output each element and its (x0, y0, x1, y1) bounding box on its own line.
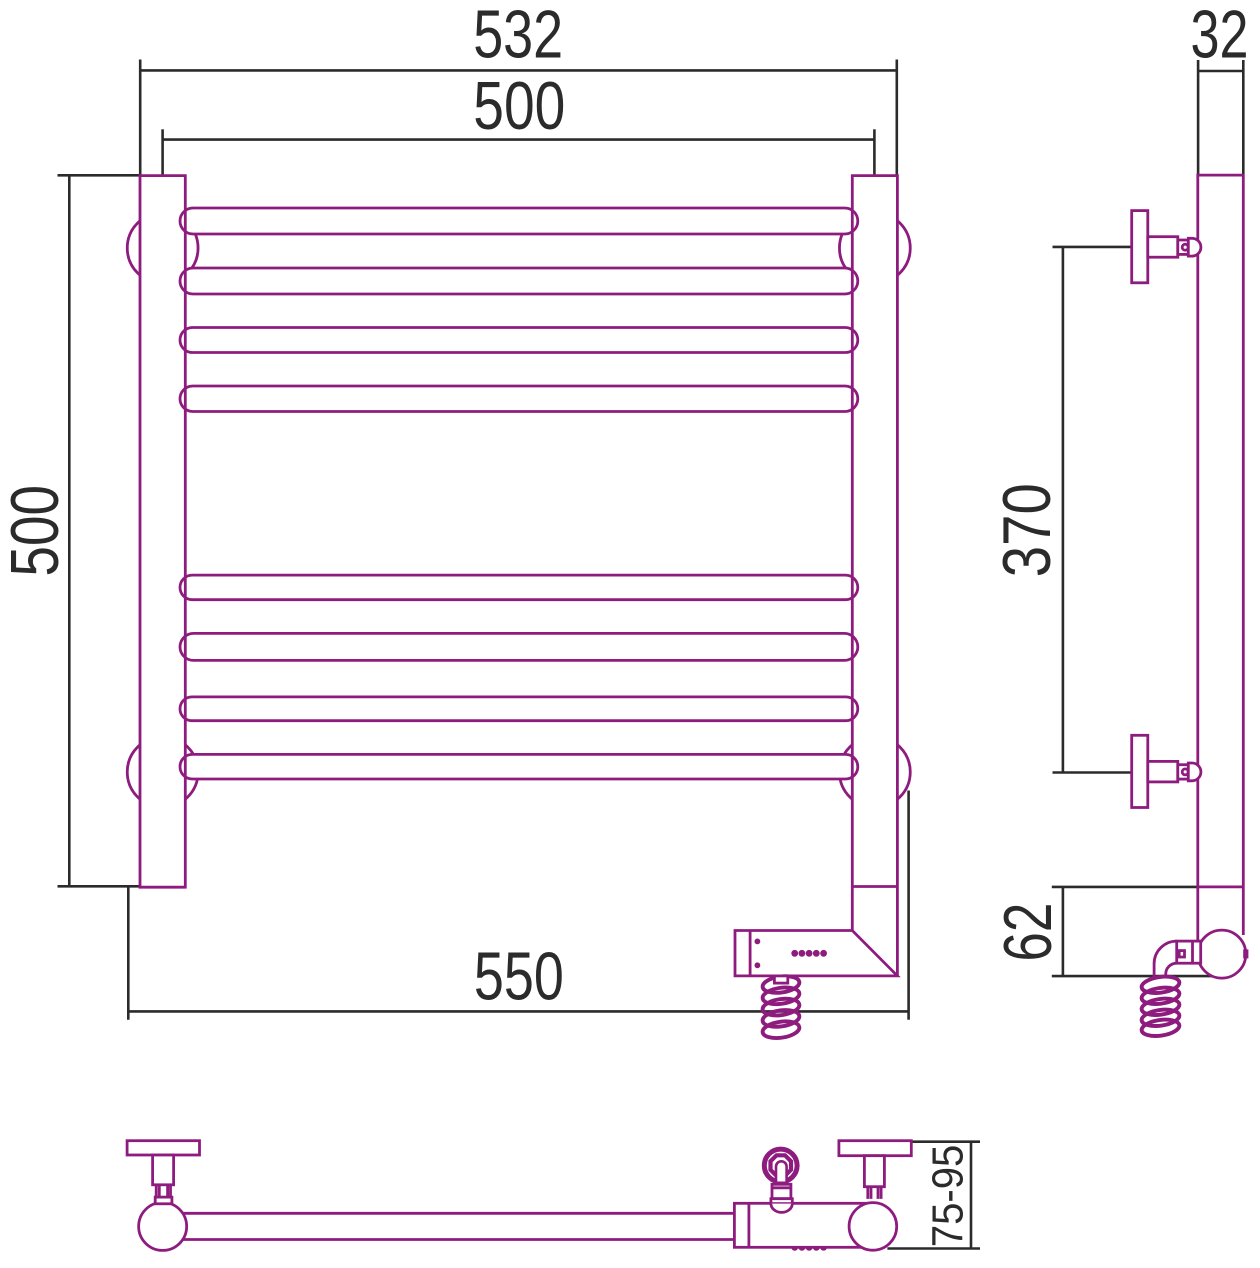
svg-text:370: 370 (989, 483, 1065, 577)
plan heater divider (748, 1203, 751, 1247)
tube T1 (180, 208, 858, 234)
plan tube bottom edge (170, 1238, 740, 1241)
dim 500 left bottom extension (58, 885, 141, 888)
tube T5 (180, 575, 858, 600)
dim 62 line (1062, 887, 1065, 976)
heater screw top (755, 939, 761, 945)
side heater circle (1198, 930, 1246, 978)
right post outline (852, 176, 897, 976)
plan tube top edge (170, 1212, 740, 1215)
plan LED bumps (791, 1247, 827, 1250)
heater housing front (735, 931, 897, 976)
plan valve tail arc (771, 1204, 792, 1213)
left post outline (140, 176, 185, 888)
dim 500 top right extension (873, 129, 876, 175)
tube T7 (180, 697, 858, 721)
dim 500 left top extension (58, 174, 141, 177)
side bracket bottom: wall plate (1132, 735, 1148, 807)
side bracket top: screw (1182, 244, 1188, 250)
dim 62 top extension (1052, 886, 1197, 889)
tube T3 (180, 328, 858, 353)
dim 370 top extension (1053, 246, 1132, 249)
side bracket top: stem (1148, 237, 1178, 258)
side bracket bottom: stem (1148, 761, 1178, 782)
wall bracket circle top-right (839, 213, 910, 284)
plan bracket right: neck (868, 1187, 881, 1199)
svg-text:62: 62 (990, 903, 1066, 962)
plan valve handle slot (776, 1161, 787, 1181)
dim 532 right extension (895, 60, 898, 176)
side bracket top: clamp (1178, 240, 1189, 254)
tube T4 (180, 386, 858, 412)
wall bracket circle bottom-left (127, 737, 198, 808)
dim 550 line (128, 1010, 908, 1013)
plan bracket left: stem (153, 1155, 174, 1185)
dim 500 top line (163, 138, 875, 141)
side bracket top: wall plate (1132, 211, 1148, 283)
svg-text:75-95: 75-95 (925, 1145, 973, 1248)
right post joint line (852, 885, 897, 888)
plan valve neck line (772, 1186, 791, 1189)
side bracket bottom: D-ring (1188, 763, 1201, 781)
tube T2 (180, 268, 858, 294)
dim 62 bottom extension (1052, 975, 1222, 978)
plan bracket right: wall plate (839, 1141, 911, 1156)
left post fill (140, 176, 185, 888)
heater screw bottom (755, 962, 761, 968)
plan bracket left: neck (156, 1185, 170, 1197)
svg-text:550: 550 (474, 939, 564, 1015)
heater LED dots (791, 950, 827, 957)
side connector divider (1191, 941, 1194, 963)
side elbow outer (1154, 941, 1177, 978)
wall bracket circle top-left (127, 213, 198, 284)
dim 32 line (1198, 70, 1243, 73)
cable stub front (774, 976, 787, 983)
plan valve neck (772, 1184, 791, 1198)
plan circle left (139, 1202, 187, 1250)
svg-text:500: 500 (0, 485, 73, 577)
dim 532 line (140, 69, 897, 72)
side elbow inner (1166, 963, 1177, 978)
dim 75-95 bottom extension (887, 1247, 980, 1250)
plan valve knob octagon (771, 1155, 792, 1176)
svg-text:532: 532 (473, 0, 563, 73)
dim 532 left extension (139, 60, 142, 176)
plan bracket left: step (155, 1197, 172, 1204)
side connector inner square (1179, 951, 1184, 957)
side bracket bottom: screw (1182, 769, 1188, 775)
dim 370 bottom extension (1053, 771, 1132, 774)
tube T8 (180, 754, 858, 779)
dim 370 line (1062, 247, 1065, 773)
right post fill (852, 176, 897, 888)
side connector box (1177, 941, 1201, 963)
dim 500 top left extension (161, 129, 164, 175)
dim 550 left extension (127, 886, 130, 1020)
plan heater housing (734, 1203, 874, 1247)
dim 32 right extension (1242, 60, 1245, 174)
side tube outline (1198, 175, 1244, 945)
tube T6 (180, 633, 858, 660)
side tube joint line (1198, 886, 1244, 889)
cable coil side (1141, 974, 1181, 1038)
dim 75-95 line (970, 1142, 973, 1249)
wall bracket circle bottom-right (839, 737, 910, 808)
plan bracket left: wall plate (127, 1141, 199, 1155)
dim 550 right extension (907, 791, 910, 1020)
dim 32 left extension (1197, 60, 1200, 174)
heater end cap divider (749, 931, 752, 976)
plan bracket right: stem (864, 1156, 884, 1187)
plan circle right (849, 1203, 897, 1251)
plan valve collar (771, 1199, 792, 1204)
plan valve knob outer circle (764, 1149, 797, 1182)
dim 500 left vertical line (68, 175, 71, 886)
side bracket bottom: clamp (1178, 765, 1189, 779)
svg-text:500: 500 (473, 68, 565, 144)
side bracket top: D-ring (1188, 238, 1201, 256)
side heater nub (1245, 951, 1247, 957)
svg-text:32: 32 (1191, 0, 1249, 73)
dim 75-95 top extension (911, 1140, 980, 1143)
cable coil front (762, 974, 801, 1040)
